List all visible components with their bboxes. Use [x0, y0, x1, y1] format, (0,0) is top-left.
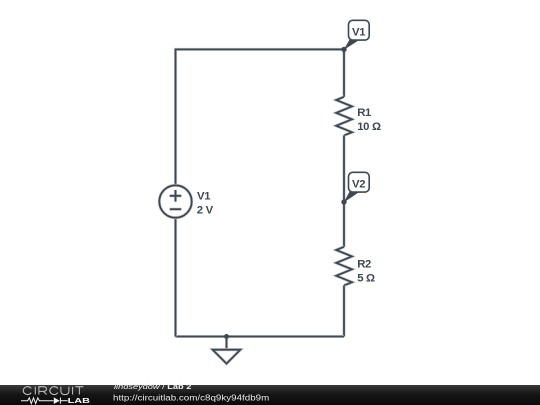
ground symbol — [213, 350, 241, 364]
wire: R1 bottom lead down through node V2 to R2 top lead — [342, 135, 345, 246]
node V2 junction dot — [341, 199, 346, 204]
svg-text:V2: V2 — [352, 179, 365, 191]
node V1 junction dot — [341, 47, 346, 52]
voltage source V1 (circle body) — [159, 185, 191, 217]
resistor R1 — [336, 97, 352, 136]
wire: ground stub — [225, 337, 228, 350]
node flag V2 pointer tail — [344, 191, 359, 203]
footer byline — [114, 383, 191, 391]
wire: R2 bottom lead down to bottom rail — [342, 285, 345, 336]
svg-text:R1: R1 — [357, 107, 371, 119]
node flag V1 pointer tail — [344, 39, 359, 50]
wire: node V1 down to R1 top lead — [342, 49, 345, 96]
svg-text:V1: V1 — [352, 27, 365, 39]
wire: bottom rail — [176, 335, 345, 338]
footer bar — [0, 385, 540, 405]
wire: left/top rail from V1 source plus terminal up and across to node V1 — [176, 49, 345, 185]
svg-text:LAB: LAB — [68, 396, 91, 405]
svg-text:R2: R2 — [357, 259, 371, 271]
voltage source V1 plus sign — [170, 190, 182, 202]
node flag V2 box — [349, 172, 370, 192]
svg-text:10 Ω: 10 Ω — [357, 121, 381, 133]
svg-text:V1: V1 — [197, 191, 210, 203]
svg-text:2 V: 2 V — [197, 205, 214, 217]
ground junction dot — [224, 334, 229, 339]
CircuitLab logo — [0, 384, 100, 405]
wire: bottom rail up to V1 source minus terminal — [174, 218, 177, 337]
voltage source V1 minus sign — [170, 208, 182, 211]
svg-text:5 Ω: 5 Ω — [357, 272, 375, 284]
resistor R2 — [336, 247, 352, 286]
node flag V1 box — [349, 20, 370, 40]
footer url — [113, 393, 269, 403]
